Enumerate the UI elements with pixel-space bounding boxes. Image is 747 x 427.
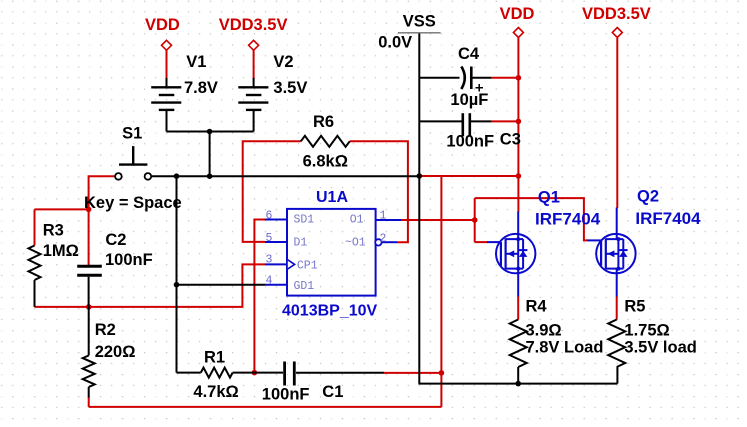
svg-text:100nF: 100nF bbox=[446, 132, 494, 150]
svg-text:R2: R2 bbox=[95, 321, 116, 339]
svg-text:1.75Ω: 1.75Ω bbox=[624, 321, 669, 339]
svg-text:1: 1 bbox=[380, 210, 387, 223]
svg-text:C4: C4 bbox=[458, 45, 480, 63]
svg-text:5: 5 bbox=[266, 232, 273, 245]
svg-text:C1: C1 bbox=[322, 383, 343, 401]
svg-text:C2: C2 bbox=[105, 231, 126, 249]
svg-text:VDD3.5V: VDD3.5V bbox=[582, 5, 651, 23]
svg-text:C3: C3 bbox=[500, 130, 521, 148]
svg-text:R1: R1 bbox=[204, 349, 225, 367]
svg-text:VSS: VSS bbox=[403, 12, 436, 30]
svg-text:V1: V1 bbox=[186, 53, 206, 71]
svg-text:100nF: 100nF bbox=[105, 251, 153, 269]
svg-text:220Ω: 220Ω bbox=[95, 343, 136, 361]
svg-text:6.8kΩ: 6.8kΩ bbox=[303, 153, 348, 171]
svg-text:3.5V load: 3.5V load bbox=[624, 338, 696, 356]
svg-text:D1: D1 bbox=[294, 237, 308, 250]
svg-text:R5: R5 bbox=[624, 297, 645, 315]
svg-text:R3: R3 bbox=[43, 222, 64, 240]
svg-text:VDD: VDD bbox=[145, 16, 180, 34]
svg-text:S1: S1 bbox=[122, 125, 142, 143]
svg-text:~O1: ~O1 bbox=[345, 237, 366, 250]
svg-text:4013BP_10V: 4013BP_10V bbox=[282, 303, 378, 320]
svg-text:IRF7404: IRF7404 bbox=[635, 209, 701, 228]
svg-text:7.8V: 7.8V bbox=[184, 79, 218, 97]
svg-text:U1A: U1A bbox=[316, 189, 348, 206]
svg-text:4: 4 bbox=[266, 275, 273, 288]
svg-text:SD1: SD1 bbox=[294, 214, 315, 227]
svg-text:VDD: VDD bbox=[500, 5, 535, 23]
svg-text:7.8V Load: 7.8V Load bbox=[526, 338, 604, 356]
svg-text:3: 3 bbox=[266, 254, 273, 267]
svg-text:3.5V: 3.5V bbox=[273, 79, 307, 97]
svg-text:4.7kΩ: 4.7kΩ bbox=[193, 383, 238, 401]
svg-text:2: 2 bbox=[380, 232, 387, 245]
svg-text:Key = Space: Key = Space bbox=[84, 194, 182, 212]
svg-text:100nF: 100nF bbox=[262, 385, 310, 403]
svg-text:R6: R6 bbox=[313, 113, 334, 131]
svg-text:6: 6 bbox=[266, 210, 273, 223]
svg-text:Q2: Q2 bbox=[637, 188, 659, 206]
svg-text:GD1: GD1 bbox=[294, 280, 315, 293]
svg-text:0.0V: 0.0V bbox=[378, 34, 412, 52]
svg-text:Q1: Q1 bbox=[538, 189, 560, 207]
svg-text:10µF: 10µF bbox=[450, 91, 488, 109]
svg-text:V2: V2 bbox=[273, 53, 293, 71]
svg-text:VDD3.5V: VDD3.5V bbox=[219, 16, 288, 34]
svg-text:R4: R4 bbox=[526, 297, 548, 315]
svg-text:3.9Ω: 3.9Ω bbox=[526, 321, 562, 339]
svg-text:1MΩ: 1MΩ bbox=[43, 242, 79, 260]
svg-text:IRF7404: IRF7404 bbox=[535, 210, 601, 229]
svg-text:CP1: CP1 bbox=[297, 260, 318, 273]
svg-text:O1: O1 bbox=[350, 214, 364, 227]
